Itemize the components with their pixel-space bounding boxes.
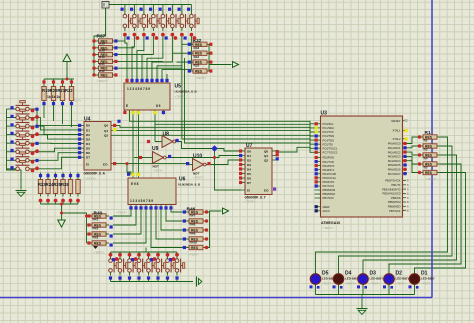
wire key row lead xyxy=(7,125,14,127)
push button key (left column 3) xyxy=(13,118,33,128)
svg-text:R49: R49 xyxy=(190,232,196,236)
svg-text:1 2 3 4 5 6 7 8 9: 1 2 3 4 5 6 7 8 9 xyxy=(127,87,150,91)
wire from power terminal to R37 rail xyxy=(94,8,106,75)
resistor R1 element 2 xyxy=(420,144,440,149)
resistor R1 element 5 xyxy=(420,170,440,175)
resistor R20 xyxy=(51,84,55,104)
wire R23 bottom stub xyxy=(62,201,64,205)
wire key top stub xyxy=(143,5,145,12)
svg-text:PB7/SCK: PB7/SCK xyxy=(323,196,335,200)
push button key (left column 4) xyxy=(13,126,33,136)
svg-text:E: E xyxy=(126,104,128,108)
svg-text:PD2/INT0: PD2/INT0 xyxy=(323,164,335,168)
svg-text:XTAL2: XTAL2 xyxy=(392,137,401,141)
wire key column to U5 pin xyxy=(147,36,163,80)
svg-text:PA6/ADC6: PA6/ADC6 xyxy=(388,168,401,172)
wire key top stub xyxy=(181,5,183,12)
wire R23 top stub xyxy=(55,173,57,177)
logic state squares at gates U8 U9 U10 xyxy=(139,139,211,165)
wire key top stub xyxy=(190,5,192,12)
wire R32 right rail to arrow xyxy=(209,44,232,71)
svg-text:<TEXT>: <TEXT> xyxy=(97,79,108,83)
svg-text:PB4/SS: PB4/SS xyxy=(391,196,401,200)
wire R32 to key column xyxy=(177,61,191,63)
push button key (left column 7) xyxy=(13,152,33,162)
svg-text:D3: D3 xyxy=(86,137,90,141)
wire U4 to U10 input xyxy=(114,163,190,165)
svg-text:U4: U4 xyxy=(84,117,91,123)
svg-text:R41: R41 xyxy=(99,62,105,66)
svg-text:EO: EO xyxy=(264,189,269,193)
wire bottom key stub xyxy=(167,252,169,256)
svg-text:<TEXT>: <TEXT> xyxy=(195,76,206,80)
wire U6 to R40 xyxy=(113,210,141,235)
svg-text:<TEXT>: <TEXT> xyxy=(153,169,164,173)
push button key (top row 3) xyxy=(142,11,152,31)
resistor R23 xyxy=(38,177,42,197)
svg-text:R42: R42 xyxy=(93,227,99,231)
logic state squares at U7 pins xyxy=(239,149,279,190)
svg-text:PA0/ADC0: PA0/ADC0 xyxy=(388,142,401,146)
push button key (top row 6) xyxy=(171,11,181,31)
push button key (top row 2) xyxy=(133,11,143,31)
wire top bus over key row 1 xyxy=(109,4,192,6)
wire key row lead xyxy=(7,108,14,110)
wire U3 PA pin to R1 xyxy=(403,146,420,148)
svg-text:PB3/AIN1/OC0: PB3/AIN1/OC0 xyxy=(382,192,401,196)
svg-text:LED-BIBY: LED-BIBY xyxy=(345,277,359,281)
wire R40 stub xyxy=(87,215,90,217)
LED D1 xyxy=(409,271,420,287)
wire bottom key bottom stub xyxy=(138,278,140,282)
wire R37 to key column xyxy=(116,67,182,69)
svg-text:Q1: Q1 xyxy=(104,129,108,133)
wire U7 Q0 to U3 xyxy=(277,147,315,152)
svg-text:PD5/OC1A: PD5/OC1A xyxy=(323,176,337,180)
svg-text:LED-BIBY: LED-BIBY xyxy=(370,277,384,281)
LED D4 xyxy=(333,271,344,287)
svg-text:PB0/T0/XCK: PB0/T0/XCK xyxy=(385,179,400,183)
svg-text:R23R24R25R28: R23R24R25R28 xyxy=(38,182,69,187)
svg-text:ATMEGA16: ATMEGA16 xyxy=(321,221,340,225)
power terminal P1 xyxy=(102,2,109,9)
svg-text:<TEXT>: <TEXT> xyxy=(245,200,256,204)
resistor R32 xyxy=(190,42,210,47)
inverter U8 xyxy=(159,136,180,148)
wire U6 to R46 xyxy=(151,210,186,248)
push button key (bottom row 4) xyxy=(137,256,147,276)
wire R1 to LED anode xyxy=(415,173,466,274)
svg-text:<TEXT>: <TEXT> xyxy=(370,282,381,286)
svg-text:RESET: RESET xyxy=(392,119,401,123)
wire key column to U5 pin xyxy=(125,36,127,80)
svg-text:PB6/MISO: PB6/MISO xyxy=(388,205,401,209)
wire column B to U3 xyxy=(185,58,315,152)
wire R19 bottom drop xyxy=(43,103,45,118)
wire key column to U5 pin xyxy=(142,36,153,80)
svg-text:D5: D5 xyxy=(247,172,251,176)
push button key (bottom row 5) xyxy=(147,256,157,276)
wire bus link xyxy=(145,248,147,253)
svg-text:Q2: Q2 xyxy=(104,134,108,138)
svg-text:R38: R38 xyxy=(99,42,105,46)
svg-text:R4: R4 xyxy=(424,157,428,161)
signal arrow (right, R32) xyxy=(233,62,239,68)
wire key row to U4 pin xyxy=(33,148,82,152)
svg-text:PA7/ADC7: PA7/ADC7 xyxy=(388,172,401,176)
svg-text:PD3/INT1: PD3/INT1 xyxy=(323,168,335,172)
svg-text:R410: R410 xyxy=(190,241,198,245)
svg-text:PC7/TOSC2: PC7/TOSC2 xyxy=(323,151,338,155)
resistor R26 xyxy=(61,177,65,197)
wire key row to U4 pin xyxy=(33,126,82,134)
wire LED cathode stub xyxy=(414,285,416,295)
wire R37 to key column xyxy=(116,60,163,62)
logic state marks around left key column xyxy=(10,106,38,172)
resistor R49 of group R46 xyxy=(186,237,206,242)
resistor R34 xyxy=(190,60,210,65)
wire blue net horizontal xyxy=(0,297,432,299)
svg-text:D1: D1 xyxy=(247,154,251,158)
svg-text:U9: U9 xyxy=(152,146,159,152)
svg-text:<TEXT>: <TEXT> xyxy=(71,99,82,103)
svg-text:R41: R41 xyxy=(93,218,99,222)
wire key top stub xyxy=(152,5,154,12)
wire key row lead xyxy=(7,151,14,153)
wire U5 pin 9 stub xyxy=(166,74,168,80)
wire bottom key bottom stub xyxy=(119,278,121,282)
svg-text:EO: EO xyxy=(103,163,108,167)
wire U6 to R46 xyxy=(166,210,186,222)
LED D3 xyxy=(358,271,369,287)
wire bottom key bottom stub xyxy=(148,278,150,282)
resistor R19 xyxy=(42,84,46,104)
wire LED cathode stub xyxy=(338,285,340,295)
junction (blue diamond) xyxy=(211,145,218,152)
wire U5 pin to U3 xyxy=(130,111,315,124)
svg-text:R40: R40 xyxy=(99,55,105,59)
wire R19 top stub xyxy=(53,79,55,84)
wire U6 to R46 xyxy=(156,210,186,240)
svg-text:D0: D0 xyxy=(247,149,251,153)
svg-text:R1: R1 xyxy=(425,130,431,136)
logic state squares above U5 xyxy=(125,79,168,82)
wire bottom key bottom rail xyxy=(111,281,194,283)
svg-text:D3: D3 xyxy=(247,163,251,167)
wire key column to U5 pin xyxy=(132,36,134,80)
wire U5 pin stub xyxy=(163,111,165,115)
svg-text:PA4/ADC4: PA4/ADC4 xyxy=(388,159,401,163)
wire junction to U7 D0 xyxy=(215,149,241,152)
svg-text:AREF: AREF xyxy=(323,205,331,209)
resistor R38 xyxy=(96,46,116,51)
svg-text:R5: R5 xyxy=(424,166,428,170)
wire key row lead xyxy=(7,142,14,144)
svg-text:RES: RES xyxy=(195,70,203,74)
svg-text:<TEXT>: <TEXT> xyxy=(345,282,356,286)
ground (left key column) xyxy=(16,191,27,197)
logic state marks of R46 group xyxy=(183,210,208,249)
wire R1 to LED anode xyxy=(363,155,457,274)
wire key top stub xyxy=(171,5,173,12)
wire R37 to key column xyxy=(116,47,135,49)
wire R23 top stub xyxy=(77,173,79,177)
svg-text:PB5/MOSI: PB5/MOSI xyxy=(388,200,401,204)
logic state marks of R40 group xyxy=(87,214,112,246)
wire bottom key stub xyxy=(176,252,178,256)
push button key (bottom row 2) xyxy=(118,256,128,276)
resistor R42 xyxy=(96,73,116,78)
svg-text:GN9900F_8_A: GN9900F_8_A xyxy=(84,172,106,176)
push button key (bottom row 3) xyxy=(128,256,138,276)
svg-text:PD1/TXD: PD1/TXD xyxy=(323,160,334,164)
svg-text:1 2 3 4 5 6 7 8 9: 1 2 3 4 5 6 7 8 9 xyxy=(130,199,153,203)
wire U8 output to junction xyxy=(179,142,215,149)
svg-text:<TEXT>: <TEXT> xyxy=(175,95,186,99)
svg-text:PC4/TDO: PC4/TDO xyxy=(323,138,335,142)
svg-text:<TEXT>: <TEXT> xyxy=(85,177,96,181)
wire to LED ground xyxy=(361,295,363,309)
resistor R37 xyxy=(96,39,116,44)
svg-text:Q2: Q2 xyxy=(264,158,268,162)
wire U3 PA pin to R1 xyxy=(403,156,420,164)
encoder IC U7 xyxy=(241,148,278,195)
svg-text:D7: D7 xyxy=(247,181,251,185)
wire R23 bottom stub xyxy=(55,201,57,205)
logic state squares below U5 xyxy=(123,111,165,114)
wire key row to U4 pin xyxy=(33,142,82,144)
wire R23 top stub xyxy=(70,173,72,177)
ground (bottom key row, rotated) xyxy=(197,277,202,287)
wire bottom key bottom stub xyxy=(176,278,178,282)
wire R23 bottom bus xyxy=(41,203,79,205)
wire bottom key stub xyxy=(110,252,112,256)
wire R40 stub xyxy=(87,224,90,226)
wire U4 Q0 to U3 xyxy=(114,125,315,132)
wire key row to U4 pin xyxy=(33,153,82,161)
svg-text:Q0: Q0 xyxy=(104,124,108,128)
logic state squares at U4 pins xyxy=(78,124,116,165)
svg-text:PC2/TCK: PC2/TCK xyxy=(323,130,335,134)
svg-text:Q1: Q1 xyxy=(264,154,268,158)
push button key (left column 2) xyxy=(13,109,33,119)
svg-text:LED-BIBY: LED-BIBY xyxy=(421,277,435,281)
resistor R33 xyxy=(190,51,210,56)
svg-text:D5: D5 xyxy=(86,147,90,151)
wire U3 PA pin to R1 xyxy=(403,161,420,173)
resistor R40 xyxy=(96,59,116,64)
wire key row lead xyxy=(7,117,14,119)
svg-text:D2: D2 xyxy=(247,158,251,162)
svg-text:Q0: Q0 xyxy=(264,149,268,153)
logic state square at bundle corner xyxy=(117,120,120,123)
svg-text:RES: RES xyxy=(94,242,102,246)
svg-text:<TEXT>: <TEXT> xyxy=(421,282,432,286)
wire R46 right rail xyxy=(206,211,222,248)
logic state marks of R23-R28 xyxy=(39,174,80,202)
wire junction drop to U7 EI xyxy=(215,149,241,191)
value mark under R40 group xyxy=(93,246,98,249)
svg-text:R47: R47 xyxy=(190,214,196,218)
ground (LED rail) xyxy=(357,309,368,315)
svg-text:U7: U7 xyxy=(246,143,253,149)
power arrow (up) xyxy=(63,54,71,62)
LED D2 xyxy=(384,271,395,287)
driver IC U6 xyxy=(128,175,176,210)
wire key column to U5 pin xyxy=(157,36,182,80)
push button key (left column 1) xyxy=(13,101,33,111)
wire bottom key stub xyxy=(138,252,140,256)
svg-text:PA2/ADC2: PA2/ADC2 xyxy=(388,150,401,154)
wire bottom key top bus xyxy=(111,251,178,253)
wire bottom key stub xyxy=(148,252,150,256)
wire U4 Q2 to U3 xyxy=(114,135,315,140)
svg-text:R19R20R21R22: R19R20R21R22 xyxy=(42,88,73,93)
wire bottom key stub xyxy=(129,252,131,256)
svg-text:PB5/MOSI: PB5/MOSI xyxy=(323,188,336,192)
wire R32 to key column xyxy=(190,70,191,72)
wire key top stub xyxy=(124,5,126,12)
wire to U8 input xyxy=(155,123,159,142)
logic state squares at U6 pins xyxy=(127,173,173,210)
svg-text:PB7/SCK: PB7/SCK xyxy=(389,209,401,213)
svg-text:PD6/ICP1: PD6/ICP1 xyxy=(323,180,335,184)
svg-text:PC6/TOSC1: PC6/TOSC1 xyxy=(323,146,338,150)
svg-text:<TEXT>: <TEXT> xyxy=(116,211,127,215)
logic state marks below top key row xyxy=(123,33,196,40)
svg-text:PB6/MISO: PB6/MISO xyxy=(323,192,336,196)
resistor R25 xyxy=(53,177,57,197)
wire LED cathode stub xyxy=(362,285,364,295)
resistor R28 xyxy=(76,177,80,197)
wire U9 output to U7 D1 xyxy=(170,156,241,158)
wire key top stub xyxy=(133,5,135,12)
svg-text:R39: R39 xyxy=(99,48,105,52)
wire R1 to LED anode xyxy=(316,137,448,274)
wire R1 to LED anode xyxy=(339,146,453,274)
svg-text:D4: D4 xyxy=(247,167,251,171)
wire R1 to LED anode xyxy=(389,164,461,274)
svg-text:U3: U3 xyxy=(321,111,328,117)
wire R40 stub xyxy=(87,233,90,235)
wire R19 bottom drop xyxy=(62,103,64,124)
svg-text:<TEXT>: <TEXT> xyxy=(323,226,334,230)
encoder IC U4 xyxy=(82,122,115,171)
svg-text:PB2/AIN0/INT2: PB2/AIN0/INT2 xyxy=(382,187,401,191)
logic state squares below LEDs xyxy=(310,285,419,288)
wire to U9 input xyxy=(134,157,149,159)
wire U5 to U6 pin A xyxy=(132,111,134,175)
wire U3 PA pin to R1 xyxy=(403,137,420,144)
push button key (left column 5) xyxy=(13,135,33,145)
svg-text:R3: R3 xyxy=(424,148,428,152)
resistor R41 of group R40 xyxy=(89,223,109,228)
resistor R46 of group R46 xyxy=(186,210,206,215)
logic state squares at U3 right pins xyxy=(404,119,407,141)
wire R23 bottom stub xyxy=(40,201,42,205)
wire R40 stub xyxy=(87,242,90,244)
wire key row to U4 pin xyxy=(33,157,82,169)
wire R40 left rail xyxy=(62,204,90,243)
wire R23 top stub xyxy=(47,173,49,177)
wire key row to U4 pin xyxy=(33,135,82,139)
svg-text:PD7/OC2: PD7/OC2 xyxy=(323,184,335,188)
svg-text:D4: D4 xyxy=(86,142,90,146)
wire key column to U5 pin xyxy=(162,36,191,80)
resistor R24 xyxy=(46,177,50,197)
wire key column to U5 pin xyxy=(137,36,144,80)
svg-text:<TEXT>: <TEXT> xyxy=(193,176,204,180)
wire U6 to R46 xyxy=(161,210,186,231)
wire R19 top stub xyxy=(62,79,64,84)
wire R23 bottom stub xyxy=(77,201,79,205)
wire R19 top stub xyxy=(43,79,45,84)
svg-text:R34: R34 xyxy=(194,55,200,59)
wire bottom key bottom stub xyxy=(110,278,112,282)
wire U3 PA pin to R1 xyxy=(403,152,420,155)
push button key (bottom row 6) xyxy=(156,256,166,276)
wire bottom key bottom stub xyxy=(129,278,131,282)
svg-text:RES: RES xyxy=(191,246,199,250)
push button key (bottom row 7) xyxy=(166,256,176,276)
LED D5 xyxy=(310,271,321,287)
svg-text:R33: R33 xyxy=(194,46,200,50)
wire blue net vertical xyxy=(431,0,433,298)
inverter U9 xyxy=(149,152,170,164)
wire bottom key bottom stub xyxy=(157,278,159,282)
resistor R47 of group R46 xyxy=(186,219,206,224)
resistor R41 xyxy=(96,66,116,71)
svg-text:U10: U10 xyxy=(193,154,202,160)
wire R37 to key column xyxy=(116,54,154,56)
wire branch to U6 xyxy=(127,164,131,175)
push button key (top row 8) xyxy=(190,11,200,31)
svg-text:<TEXT>: <TEXT> xyxy=(396,282,407,286)
push button key (bottom row 8) xyxy=(175,256,185,276)
push button key (left column 6) xyxy=(13,143,33,153)
wire key top stub xyxy=(162,5,164,12)
svg-text:PA5/ADC5: PA5/ADC5 xyxy=(388,163,401,167)
logic state marks of R19-R22 xyxy=(42,80,73,105)
svg-text:RES: RES xyxy=(425,171,433,175)
wire U6 to R40 xyxy=(113,210,131,217)
resistor R43 of group R40 xyxy=(89,241,109,246)
logic state marks around bottom key row xyxy=(109,253,179,280)
resistor R35 xyxy=(190,69,210,74)
svg-text:<TEXT>: <TEXT> xyxy=(426,177,437,181)
svg-text:PA1/ADC1: PA1/ADC1 xyxy=(388,146,401,150)
push button key (top row 4) xyxy=(152,11,162,31)
svg-text:D2: D2 xyxy=(86,133,90,137)
svg-text:U8: U8 xyxy=(163,132,170,138)
svg-text:PC0/SCL: PC0/SCL xyxy=(323,122,335,126)
wire key column to U5 pin xyxy=(152,36,172,80)
wire to down arrow xyxy=(61,213,63,220)
wire LED cathode rail xyxy=(316,294,415,296)
power arrow (down) xyxy=(58,220,66,227)
svg-text:PA3/ADC3: PA3/ADC3 xyxy=(388,155,401,159)
resistor R48 of group R46 xyxy=(186,228,206,233)
svg-text:PB1/T1: PB1/T1 xyxy=(392,183,401,187)
svg-text:D6: D6 xyxy=(86,151,90,155)
resistor R1 element 1 xyxy=(420,135,440,140)
wire R19 bottom drop xyxy=(71,103,73,127)
wire R32 to key column xyxy=(172,52,190,54)
svg-text:D7: D7 xyxy=(86,156,90,160)
wire U4 Q1 to U3 xyxy=(114,131,315,136)
wire R37 to key column xyxy=(116,40,125,42)
wire R23 top stub xyxy=(62,173,64,177)
